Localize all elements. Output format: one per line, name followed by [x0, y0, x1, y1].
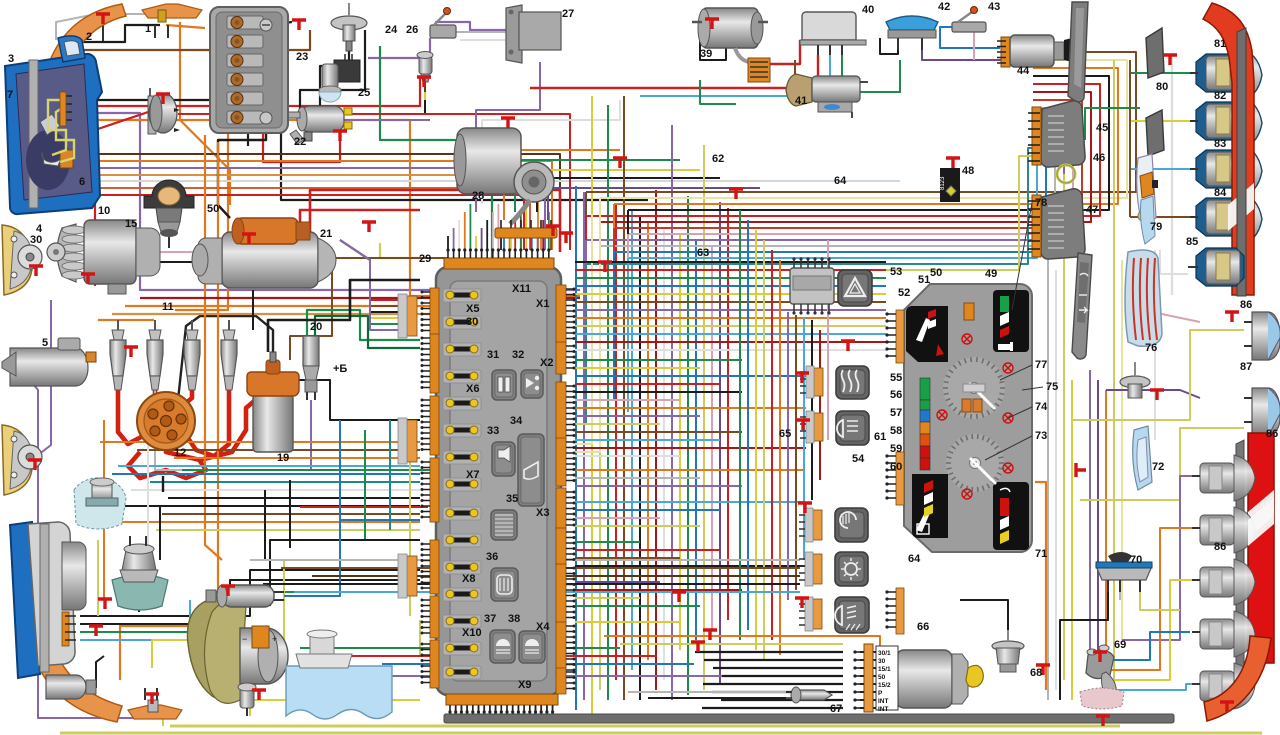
svg-text:86: 86 [1266, 428, 1278, 440]
ground [841, 341, 855, 351]
wire [575, 186, 577, 710]
wire [72, 113, 580, 290]
svg-text:15/1: 15/1 [878, 666, 891, 673]
svg-text:75: 75 [1046, 381, 1058, 393]
ground [1225, 312, 1239, 322]
wire [525, 204, 527, 250]
wire [739, 210, 741, 640]
wire [575, 261, 886, 263]
svg-text:7: 7 [7, 89, 13, 101]
wire [409, 430, 411, 616]
wire [575, 557, 680, 559]
wire [530, 238, 532, 250]
wire [599, 270, 601, 436]
svg-text:84: 84 [1214, 187, 1227, 199]
wire [639, 216, 641, 700]
wire [178, 316, 273, 400]
wire [599, 222, 601, 340]
wire [72, 30, 310, 50]
wire [585, 192, 587, 280]
wire [700, 80, 736, 104]
svg-text:42: 42 [938, 1, 950, 13]
wire [368, 38, 430, 58]
svg-text:70: 70 [1130, 554, 1142, 566]
fan 15 [187, 599, 238, 700]
svg-text:29: 29 [419, 253, 431, 265]
wire [523, 706, 525, 717]
wire [364, 430, 366, 540]
wire [695, 240, 697, 640]
svg-text:−: − [242, 634, 247, 644]
wire [389, 420, 391, 530]
wire [548, 188, 760, 220]
ground [729, 189, 743, 199]
svg-text:22: 22 [294, 136, 306, 148]
svg-text:53: 53 [890, 266, 902, 278]
wire [795, 315, 797, 590]
wire [30, 380, 38, 455]
svg-text:58: 58 [890, 425, 902, 437]
svg-text:67: 67 [830, 703, 842, 715]
instrument cluster 50 [904, 284, 1032, 552]
wire [152, 640, 250, 668]
svg-text:34: 34 [510, 415, 523, 427]
wire [489, 706, 491, 717]
wire [575, 447, 806, 449]
ground [1096, 716, 1110, 726]
wire [170, 725, 1120, 728]
ground [1150, 390, 1164, 400]
wire [719, 202, 721, 685]
gauge 52 fuel [906, 306, 948, 362]
wire [1097, 380, 1099, 670]
wire [136, 261, 196, 263]
wire [512, 706, 514, 717]
wire [575, 415, 700, 417]
wire [586, 148, 1033, 264]
wire [159, 505, 161, 550]
wire [340, 240, 398, 324]
wire [721, 699, 843, 701]
svg-text:20: 20 [310, 321, 322, 333]
svg-text:32: 32 [512, 349, 524, 361]
gauge 64 area [912, 474, 948, 538]
wire [575, 605, 700, 607]
wire [447, 236, 449, 250]
wire [281, 567, 800, 569]
wire [1090, 632, 1190, 660]
wire [307, 310, 420, 340]
sensor 18 [222, 585, 274, 607]
svg-text:72: 72 [1152, 461, 1164, 473]
valve 16 bottom [240, 688, 254, 708]
ground [795, 598, 809, 608]
wire [779, 260, 781, 655]
wire [340, 119, 430, 121]
wire [128, 452, 206, 478]
wire [475, 236, 477, 250]
wire [503, 236, 505, 250]
wire [575, 501, 805, 503]
wire [540, 238, 542, 250]
svg-text:40: 40 [862, 4, 874, 16]
icon 36 [491, 568, 518, 601]
sensor 20 [303, 336, 319, 366]
wire [486, 220, 488, 250]
ground [798, 503, 812, 513]
wire [310, 190, 560, 252]
wire [112, 313, 560, 315]
wire [340, 240, 398, 306]
wire [80, 600, 190, 640]
wire [453, 228, 455, 250]
wire [340, 240, 398, 312]
wire [600, 92, 1091, 222]
wire [575, 565, 805, 567]
icon 38 [519, 631, 545, 663]
indicators 55-60 [920, 378, 930, 400]
front fender bottom-left [22, 546, 122, 722]
wire [575, 269, 886, 271]
wire [103, 420, 105, 600]
wire [713, 667, 843, 669]
svg-text:54: 54 [852, 453, 865, 465]
wire [604, 636, 880, 646]
wire [591, 96, 593, 715]
wire [1105, 390, 1107, 680]
svg-text:X4: X4 [536, 621, 550, 633]
wire [575, 439, 720, 441]
wire [655, 190, 657, 690]
wire [504, 150, 620, 220]
heater motor 39 [702, 8, 758, 48]
connector X9 [446, 694, 558, 705]
wire [180, 22, 230, 205]
wire [1035, 482, 1046, 690]
wire [727, 208, 729, 620]
wire [819, 330, 821, 480]
wire [1114, 684, 1192, 690]
wire [1119, 592, 1121, 600]
icon 37 [490, 630, 515, 663]
svg-text:P: P [878, 690, 883, 697]
wire [100, 441, 420, 443]
svg-text:71: 71 [1035, 548, 1047, 560]
tail lens stripe top-right [1228, 183, 1254, 231]
ground [362, 222, 376, 232]
wire [514, 220, 516, 250]
svg-text:+Б: +Б [333, 363, 347, 375]
wire [72, 100, 248, 146]
wiper motor 28 [457, 128, 521, 194]
sensor 67 [796, 690, 832, 700]
wire [60, 732, 1262, 735]
wire [722, 675, 843, 677]
svg-text:38: 38 [508, 613, 520, 625]
svg-text:55: 55 [890, 372, 902, 384]
svg-text:33: 33 [487, 425, 499, 437]
svg-text:61: 61 [874, 431, 886, 443]
svg-text:62: 62 [712, 153, 724, 165]
wire [631, 210, 633, 670]
wire [449, 706, 451, 717]
switch 53 [838, 270, 872, 306]
wire [1129, 60, 1131, 217]
wire [575, 525, 700, 527]
ground [1220, 702, 1234, 712]
wire [747, 220, 749, 630]
svg-text:21: 21 [320, 228, 332, 240]
ground [501, 118, 515, 128]
wire [497, 204, 499, 250]
svg-text:51: 51 [918, 274, 930, 286]
wire [599, 246, 601, 388]
wire [166, 390, 270, 460]
wire [529, 706, 531, 717]
washer reservoir 13 [74, 478, 126, 529]
svg-text:86: 86 [1240, 299, 1252, 311]
wire [150, 481, 420, 483]
wire [628, 108, 1073, 234]
wire [614, 100, 1082, 228]
wire [455, 706, 457, 717]
wire [96, 656, 104, 688]
ground [1093, 652, 1107, 662]
wire [517, 706, 519, 717]
wire [550, 238, 552, 250]
sensor 24 [331, 16, 367, 30]
wire [575, 391, 742, 393]
ground [795, 373, 809, 383]
svg-text:1: 1 [145, 23, 151, 35]
relay 40 [802, 12, 856, 40]
svg-text:82: 82 [1214, 90, 1226, 102]
wire [481, 228, 483, 250]
wire [341, 655, 657, 657]
connectors X1-X4 right strips [556, 285, 566, 344]
svg-text:30/1: 30/1 [878, 650, 891, 657]
svg-text:X11: X11 [512, 283, 531, 295]
svg-text:81: 81 [1214, 38, 1226, 50]
wire [252, 290, 254, 330]
wire [628, 140, 1037, 258]
wire [787, 312, 789, 600]
ground [672, 592, 686, 602]
wire [620, 643, 843, 645]
wire [162, 710, 164, 726]
wire [250, 700, 420, 716]
switch 62 [835, 508, 868, 542]
wire [575, 349, 886, 351]
starter 21 [222, 232, 318, 288]
horn 5 [10, 348, 88, 386]
switch 63 [835, 552, 868, 586]
ground [613, 158, 627, 168]
wire [575, 277, 886, 279]
svg-text:X6: X6 [466, 383, 479, 395]
svg-text:X8: X8 [462, 573, 475, 585]
svg-text:41: 41 [795, 95, 807, 107]
ground [89, 626, 103, 636]
wire [575, 341, 886, 343]
wire [803, 318, 805, 560]
wire [18, 180, 900, 182]
wire [218, 125, 266, 218]
tail lens right [1248, 433, 1274, 663]
wire [613, 252, 615, 400]
ground [98, 599, 112, 609]
wire [323, 675, 731, 677]
spark plugs 11 [117, 320, 119, 332]
wire [1098, 528, 1200, 670]
ground [145, 694, 159, 704]
ground [1076, 463, 1086, 477]
wire [940, 27, 1000, 48]
wire [827, 240, 829, 440]
wire [182, 388, 192, 406]
svg-text:57: 57 [890, 407, 902, 419]
ignition coil 19 [253, 394, 293, 452]
ground [81, 274, 95, 284]
icon 34 [518, 434, 544, 506]
svg-text:39: 39 [700, 48, 712, 60]
wire [152, 388, 155, 406]
wire [10, 154, 560, 250]
wire [270, 22, 292, 25]
wire [586, 84, 1100, 216]
wire [1071, 380, 1073, 700]
wire [125, 305, 565, 307]
wire [960, 600, 1008, 630]
bracket 1 top [142, 4, 202, 18]
ground [333, 131, 347, 141]
wire [614, 132, 1046, 252]
wire [1063, 174, 1065, 200]
relay 53 [790, 268, 834, 304]
wire [575, 285, 886, 287]
wire [520, 238, 522, 250]
wire [155, 322, 190, 470]
wire [575, 333, 886, 335]
wire [120, 142, 218, 680]
wire [483, 706, 485, 717]
wire [575, 325, 886, 327]
washer 42 [886, 16, 938, 30]
connector 47 [1041, 189, 1085, 259]
wire [1060, 592, 1108, 700]
wire [575, 301, 886, 303]
wire [811, 320, 813, 500]
wire [424, 52, 426, 100]
svg-text:50: 50 [207, 203, 219, 215]
svg-text:30: 30 [466, 316, 478, 328]
wire [575, 509, 720, 511]
wire [482, 100, 620, 204]
wire headlamp internal [48, 100, 66, 155]
wire [166, 25, 205, 28]
ground [691, 642, 705, 652]
svg-text:73: 73 [1035, 430, 1047, 442]
svg-text:31: 31 [487, 349, 499, 361]
svg-text:X10: X10 [462, 627, 482, 639]
wire [540, 706, 542, 717]
wire [695, 651, 843, 653]
indicator 49 [964, 303, 974, 320]
wire [535, 706, 537, 717]
svg-text:79: 79 [1150, 221, 1162, 233]
horn 4 [2, 425, 32, 495]
svg-text:24: 24 [385, 24, 398, 36]
bulb 85 [1196, 248, 1244, 286]
wire [627, 258, 629, 412]
wire [583, 192, 585, 700]
wire [478, 706, 480, 717]
wire [548, 212, 550, 250]
ground [252, 690, 266, 700]
svg-text:15: 15 [125, 218, 137, 230]
svg-text:66: 66 [917, 621, 929, 633]
svg-text:15/2: 15/2 [878, 682, 891, 689]
svg-text:12: 12 [174, 447, 186, 459]
svg-text:48: 48 [962, 165, 974, 177]
wire [575, 222, 600, 452]
svg-text:X9: X9 [518, 679, 531, 691]
ground [221, 586, 235, 596]
svg-text:77: 77 [1035, 359, 1047, 371]
wire [424, 100, 426, 115]
wire [648, 697, 786, 699]
wire [575, 309, 886, 311]
wire [599, 198, 601, 292]
wire [205, 135, 222, 560]
fuel sender 69 [1086, 650, 1114, 678]
wire [340, 240, 398, 318]
wire [1072, 330, 1244, 420]
wire [607, 105, 609, 700]
wire [575, 367, 700, 369]
wire [311, 400, 420, 470]
wire [613, 204, 615, 304]
wire [80, 580, 420, 624]
wire [284, 520, 420, 596]
sidelight 2 top [58, 36, 85, 62]
svg-text:25: 25 [358, 87, 370, 99]
wire [712, 691, 843, 693]
ground [1163, 55, 1177, 65]
wire [10, 161, 552, 250]
svg-text:83: 83 [1214, 138, 1226, 150]
wire [159, 505, 161, 560]
wire [289, 480, 291, 548]
rear bulbs 86 [1200, 463, 1234, 493]
ground [417, 77, 431, 87]
wire [162, 476, 164, 492]
ground [546, 226, 560, 236]
wire [175, 133, 228, 310]
wire [38, 300, 160, 718]
wire [72, 25, 160, 42]
wire [340, 240, 398, 330]
wire [320, 620, 420, 656]
ignition switch 44 [1001, 37, 1010, 67]
wire [546, 706, 548, 717]
svg-text:5: 5 [42, 337, 48, 349]
svg-text:10: 10 [98, 205, 110, 217]
wire [118, 388, 143, 444]
wire [315, 316, 420, 348]
wire [290, 258, 448, 360]
wire [1171, 55, 1173, 295]
